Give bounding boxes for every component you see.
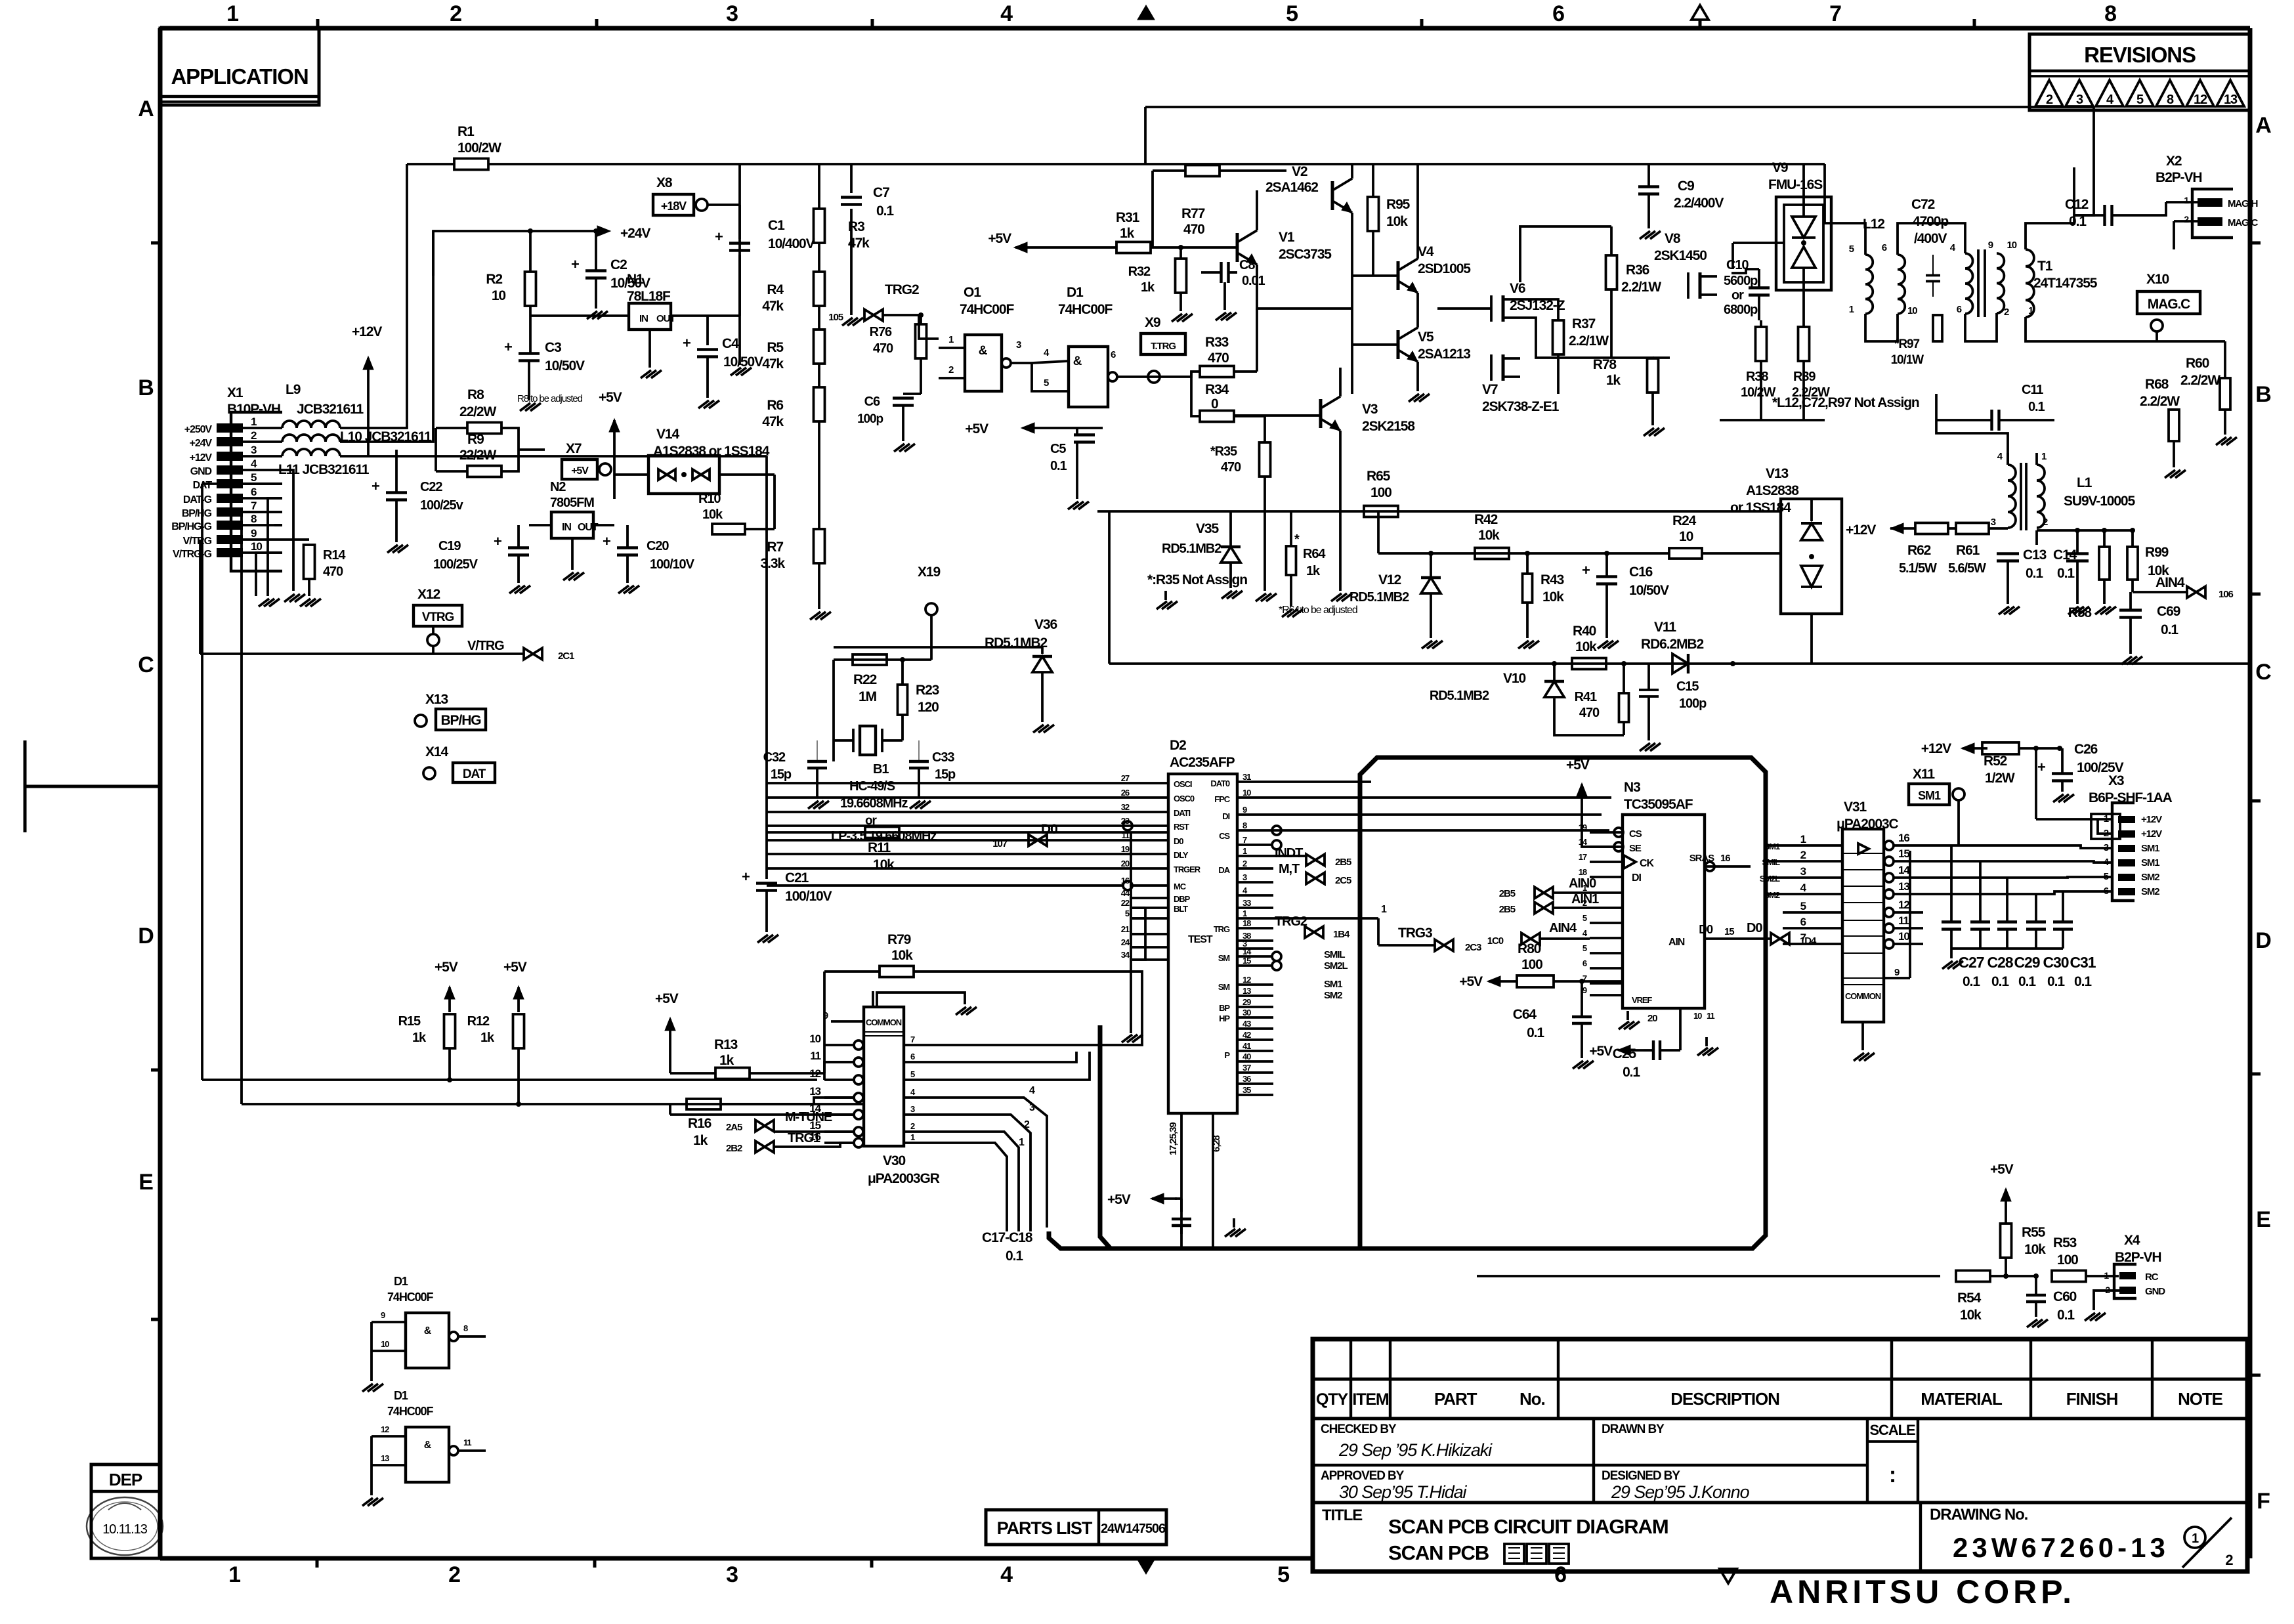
svg-text:OSCI: OSCI	[1174, 779, 1192, 789]
svg-text:+12V: +12V	[2141, 814, 2162, 825]
svg-text:41: 41	[1243, 1041, 1251, 1051]
svg-text:AIN4: AIN4	[2156, 575, 2185, 590]
svg-text:DI: DI	[1222, 811, 1229, 821]
svg-text:A1S2838: A1S2838	[1746, 483, 1799, 498]
svg-text:*R64:to be adjusted: *R64:to be adjusted	[1279, 605, 1357, 616]
svg-text:47k: 47k	[762, 414, 784, 429]
svg-text:6: 6	[1554, 1562, 1566, 1587]
svg-text:R40: R40	[1573, 624, 1596, 639]
svg-text:V11: V11	[1654, 620, 1676, 635]
svg-text:4: 4	[1029, 1085, 1035, 1096]
svg-text:18: 18	[1579, 867, 1587, 877]
svg-text:7: 7	[251, 500, 257, 512]
svg-text:N2: N2	[550, 480, 566, 494]
svg-text:8: 8	[1243, 821, 1247, 830]
svg-text:16: 16	[1898, 832, 1909, 844]
svg-text:OSC0: OSC0	[1174, 794, 1195, 803]
svg-text:10: 10	[492, 288, 506, 303]
svg-text:V/TRG: V/TRG	[183, 536, 212, 547]
svg-text:47k: 47k	[848, 236, 870, 251]
svg-text:3: 3	[1016, 339, 1021, 351]
svg-text:V/TRG: V/TRG	[467, 639, 504, 653]
svg-text:+24V: +24V	[620, 226, 650, 241]
svg-text:12: 12	[2194, 93, 2207, 107]
svg-text:6: 6	[251, 486, 257, 498]
svg-text:2: 2	[251, 429, 257, 442]
svg-text:DESCRIPTION: DESCRIPTION	[1670, 1389, 1779, 1409]
svg-text:+250V: +250V	[184, 424, 213, 435]
svg-text:120: 120	[918, 700, 939, 715]
svg-text:4: 4	[1000, 1562, 1013, 1587]
svg-text:&: &	[1073, 354, 1082, 368]
svg-text:13: 13	[1898, 880, 1909, 893]
svg-text:2.2/2W: 2.2/2W	[2180, 373, 2220, 388]
svg-text:10/1W: 10/1W	[1891, 353, 1924, 367]
svg-text:100p: 100p	[1679, 696, 1707, 711]
svg-text:21: 21	[1121, 924, 1130, 934]
svg-text:&: &	[424, 1325, 432, 1336]
svg-text:10k: 10k	[873, 857, 895, 872]
svg-text:1/2W: 1/2W	[1985, 771, 2015, 786]
svg-text:2.2/400V: 2.2/400V	[1674, 196, 1724, 211]
svg-text:10k: 10k	[1575, 639, 1597, 654]
svg-text:V7: V7	[1482, 382, 1498, 397]
svg-text:C30: C30	[2043, 954, 2069, 971]
svg-text:36: 36	[1243, 1074, 1251, 1084]
svg-text:100/25v: 100/25v	[420, 498, 464, 513]
svg-text:*R35: *R35	[1210, 444, 1237, 459]
svg-text:C72: C72	[1911, 197, 1935, 212]
svg-text:2: 2	[2004, 307, 2009, 318]
svg-text:12: 12	[1898, 899, 1909, 911]
svg-text:1: 1	[948, 334, 954, 345]
svg-text:470: 470	[1208, 351, 1229, 366]
svg-text:1: 1	[228, 1562, 240, 1587]
svg-text:2.2/1W: 2.2/1W	[1569, 333, 1609, 349]
svg-text:E: E	[138, 1170, 153, 1195]
svg-text:R32: R32	[1128, 265, 1151, 279]
svg-text:V35: V35	[1196, 521, 1219, 536]
svg-text:15: 15	[1243, 956, 1251, 966]
svg-text:3.3k: 3.3k	[761, 556, 786, 571]
svg-text:1k: 1k	[693, 1133, 708, 1148]
svg-text:VREF: VREF	[1632, 995, 1652, 1005]
svg-text:V8: V8	[1665, 231, 1681, 246]
svg-text:0.1: 0.1	[2057, 1308, 2075, 1323]
svg-text:B: B	[2255, 382, 2271, 407]
svg-text:C3: C3	[545, 340, 561, 355]
svg-text:R53: R53	[2053, 1235, 2077, 1250]
svg-text:10k: 10k	[1960, 1308, 1982, 1323]
svg-text:X19: X19	[918, 565, 940, 580]
svg-text:R10: R10	[698, 492, 721, 506]
svg-text:C9: C9	[1678, 179, 1694, 194]
svg-text:2: 2	[1243, 859, 1247, 868]
svg-text:8: 8	[2104, 1, 2116, 26]
svg-text:10: 10	[1243, 788, 1251, 798]
svg-text:1k: 1k	[1606, 373, 1621, 388]
svg-text:R38: R38	[1746, 370, 1768, 384]
svg-text:22/2W: 22/2W	[459, 448, 496, 463]
svg-text:JCB321611: JCB321611	[297, 402, 364, 417]
svg-text:23W67260-13: 23W67260-13	[1953, 1532, 2169, 1563]
svg-text:+5V: +5V	[1990, 1162, 2014, 1177]
svg-text:2C5: 2C5	[1335, 875, 1351, 886]
svg-text:BP/HG: BP/HG	[182, 508, 212, 519]
svg-text:10k: 10k	[891, 948, 913, 963]
svg-text:6: 6	[1882, 242, 1887, 253]
svg-text:2C1: 2C1	[558, 651, 574, 662]
svg-text:2SK2158: 2SK2158	[1362, 419, 1415, 434]
svg-text:B1: B1	[873, 762, 889, 777]
svg-text:2: 2	[2046, 93, 2053, 107]
svg-text:R3: R3	[848, 219, 864, 234]
svg-text:1: 1	[1243, 908, 1247, 918]
svg-text:DRAWING No.: DRAWING No.	[1930, 1506, 2028, 1524]
svg-text:R41: R41	[1575, 690, 1597, 704]
svg-text:1k: 1k	[1120, 226, 1135, 241]
svg-text:HP: HP	[1219, 1014, 1230, 1023]
svg-text:10/50V: 10/50V	[723, 354, 763, 370]
svg-text:+: +	[683, 335, 690, 351]
svg-text:R68: R68	[2145, 377, 2169, 392]
svg-text:11: 11	[1707, 1011, 1714, 1021]
svg-text:0.1: 0.1	[2026, 566, 2043, 581]
svg-text:10: 10	[251, 540, 262, 553]
svg-text:2A5: 2A5	[726, 1122, 742, 1133]
svg-text:2B5: 2B5	[1335, 857, 1351, 868]
svg-text:10: 10	[381, 1339, 389, 1349]
svg-text:100: 100	[1521, 957, 1542, 972]
svg-text:0.1: 0.1	[2028, 400, 2045, 414]
svg-text:+18V: +18V	[661, 200, 687, 213]
svg-text:TEST: TEST	[1188, 934, 1213, 945]
svg-text:100/10V: 100/10V	[650, 557, 695, 572]
svg-text:10: 10	[809, 1033, 820, 1045]
svg-text:&: &	[424, 1440, 432, 1451]
svg-text:COMMON: COMMON	[866, 1017, 902, 1027]
svg-text:2: 2	[450, 1, 461, 26]
svg-text:470: 470	[1221, 460, 1241, 475]
svg-text:5: 5	[1849, 244, 1854, 255]
svg-text:6: 6	[1957, 304, 1962, 315]
svg-text:MAG-C: MAG-C	[2228, 217, 2259, 228]
svg-text:2: 2	[1800, 849, 1806, 861]
svg-text:3: 3	[2076, 93, 2083, 107]
svg-text:1k: 1k	[1141, 280, 1155, 295]
svg-text:10k: 10k	[1386, 214, 1408, 229]
svg-text:SE: SE	[1629, 843, 1642, 854]
svg-text:10: 10	[1898, 930, 1909, 943]
svg-text:100p: 100p	[857, 412, 883, 426]
svg-text:No.: No.	[1519, 1389, 1545, 1409]
svg-text:T.TRG: T.TRG	[1151, 341, 1176, 352]
svg-text:TRG3: TRG3	[1398, 926, 1432, 941]
svg-text:D0: D0	[1041, 822, 1057, 837]
svg-text:C60: C60	[2053, 1289, 2077, 1304]
svg-text:*:R35 Not Assign: *:R35 Not Assign	[1147, 572, 1247, 588]
svg-text:SM1: SM1	[2141, 857, 2159, 868]
svg-text:6: 6	[1800, 916, 1806, 928]
svg-text::: :	[1889, 1463, 1896, 1487]
svg-text:2: 2	[910, 1121, 915, 1131]
svg-text:13: 13	[2224, 93, 2238, 107]
svg-text:SCAN PCB CIRCUIT DIAGRAM: SCAN PCB CIRCUIT DIAGRAM	[1388, 1515, 1668, 1538]
svg-text:8: 8	[2167, 93, 2174, 107]
svg-text:RC: RC	[2145, 1271, 2159, 1283]
svg-text:5: 5	[1286, 1, 1298, 26]
svg-text:10/400V: 10/400V	[768, 236, 815, 251]
svg-text:&: &	[979, 344, 988, 358]
svg-text:BP/HG: BP/HG	[440, 713, 481, 728]
svg-text:14: 14	[1898, 864, 1910, 876]
svg-text:74HC00F: 74HC00F	[1058, 302, 1113, 317]
svg-text:V5: V5	[1418, 330, 1434, 345]
svg-text:SM2: SM2	[2141, 886, 2159, 897]
svg-text:C14: C14	[2053, 547, 2077, 563]
svg-text:11: 11	[463, 1438, 471, 1447]
svg-text:SM2: SM2	[1324, 990, 1342, 1001]
svg-text:10k: 10k	[702, 507, 723, 522]
svg-text:+5V: +5V	[1566, 758, 1590, 773]
svg-text:SM2: SM2	[2141, 872, 2159, 883]
svg-text:+5V: +5V	[965, 421, 988, 437]
svg-text:74HC00F: 74HC00F	[387, 1405, 433, 1418]
svg-text:3: 3	[910, 1104, 915, 1114]
svg-text:0: 0	[1211, 396, 1218, 412]
svg-text:E: E	[2256, 1207, 2270, 1232]
svg-text:R77: R77	[1181, 206, 1205, 221]
svg-text:RD6.2MB2: RD6.2MB2	[1641, 637, 1703, 652]
svg-text:C: C	[138, 652, 154, 677]
svg-text:47k: 47k	[762, 299, 784, 314]
svg-text:15p: 15p	[771, 767, 792, 782]
svg-text:D: D	[138, 924, 154, 949]
svg-text:DEP: DEP	[109, 1470, 142, 1489]
svg-text:ANRITSU CORP.: ANRITSU CORP.	[1770, 1573, 2075, 1610]
svg-text:T1: T1	[2037, 259, 2053, 274]
svg-text:R55: R55	[2022, 1225, 2046, 1240]
svg-text:+: +	[742, 868, 750, 885]
svg-text:42: 42	[1243, 1030, 1251, 1040]
svg-text:F: F	[2257, 1489, 2270, 1514]
svg-text:1: 1	[226, 1, 238, 26]
svg-text:+24V: +24V	[190, 438, 213, 449]
svg-text:1: 1	[2041, 451, 2047, 462]
svg-text:B2P-VH: B2P-VH	[2115, 1250, 2161, 1265]
svg-text:9: 9	[1988, 240, 1993, 251]
svg-text:6: 6	[1552, 1, 1564, 26]
svg-text:R31: R31	[1116, 210, 1140, 225]
svg-text:SM: SM	[1218, 953, 1230, 963]
svg-text:AIN: AIN	[1668, 937, 1685, 948]
svg-text:0.1: 0.1	[1963, 974, 1980, 989]
svg-text:+12V: +12V	[2141, 828, 2162, 840]
svg-text:4: 4	[1000, 1, 1013, 26]
svg-text:D0: D0	[1174, 836, 1183, 846]
svg-text:M,T: M,T	[1279, 862, 1300, 876]
svg-text:40: 40	[1243, 1052, 1251, 1061]
svg-text:R1: R1	[457, 124, 475, 139]
svg-text:20: 20	[1647, 1013, 1657, 1024]
svg-text:43: 43	[1243, 1019, 1251, 1029]
svg-text:X2: X2	[2166, 154, 2182, 169]
svg-text:3: 3	[251, 444, 257, 456]
svg-text:+5V: +5V	[655, 991, 679, 1006]
svg-text:C: C	[2255, 660, 2271, 685]
svg-text:X3: X3	[2108, 773, 2124, 788]
svg-text:R33: R33	[1205, 335, 1229, 350]
svg-text:1: 1	[1381, 904, 1387, 915]
svg-text:DAT: DAT	[463, 767, 486, 781]
svg-text:0.1: 0.1	[1991, 974, 2009, 989]
svg-text:INDT: INDT	[1275, 846, 1303, 861]
svg-text:C2: C2	[610, 257, 627, 272]
svg-text:+5V: +5V	[571, 465, 589, 477]
svg-text:6: 6	[910, 1052, 915, 1061]
svg-text:M-TUNE: M-TUNE	[785, 1110, 832, 1124]
svg-text:2C3: 2C3	[1465, 942, 1481, 953]
svg-text:TC35095AF: TC35095AF	[1624, 797, 1693, 812]
svg-text:V3: V3	[1362, 402, 1378, 417]
svg-text:26: 26	[1121, 788, 1130, 798]
svg-text:L9: L9	[286, 382, 301, 397]
svg-text:11: 11	[1121, 830, 1129, 840]
svg-text:+: +	[494, 533, 501, 549]
svg-text:R60: R60	[2186, 356, 2209, 371]
svg-text:18: 18	[1243, 918, 1251, 928]
svg-text:C5: C5	[1050, 442, 1066, 456]
svg-text:100/10V: 100/10V	[785, 889, 832, 904]
svg-text:MC: MC	[1174, 882, 1187, 891]
svg-text:13: 13	[381, 1453, 389, 1463]
svg-text:+5V: +5V	[1589, 1044, 1613, 1059]
svg-text:MATERIAL: MATERIAL	[1921, 1389, 2003, 1409]
svg-text:R79: R79	[887, 932, 911, 947]
svg-text:0.1: 0.1	[1527, 1025, 1544, 1040]
svg-text:0.1: 0.1	[2074, 974, 2092, 989]
svg-text:CS: CS	[1629, 828, 1642, 840]
svg-text:13: 13	[1243, 986, 1251, 996]
svg-text:47k: 47k	[762, 356, 784, 372]
svg-text:7805FM: 7805FM	[550, 496, 594, 510]
svg-text:DESIGNED BY: DESIGNED BY	[1602, 1469, 1680, 1483]
svg-text:100/2W: 100/2W	[457, 140, 501, 156]
svg-text:R80: R80	[1518, 941, 1541, 956]
svg-text:V31: V31	[1844, 800, 1867, 815]
svg-text:0.1: 0.1	[2018, 974, 2036, 989]
svg-text:24T147355: 24T147355	[2033, 276, 2098, 291]
svg-text:C33: C33	[932, 750, 954, 765]
svg-text:O1: O1	[964, 285, 981, 300]
svg-text:+: +	[603, 533, 610, 549]
svg-text:2SD1005: 2SD1005	[1418, 261, 1471, 276]
svg-text:10/50V: 10/50V	[1629, 583, 1669, 598]
svg-text:5: 5	[1582, 943, 1587, 953]
svg-text:SM1: SM1	[1918, 789, 1941, 802]
svg-text:74HC00F: 74HC00F	[387, 1291, 433, 1304]
svg-text:470: 470	[1579, 706, 1600, 720]
svg-text:ITEM: ITEM	[1352, 1390, 1389, 1409]
svg-text:R15: R15	[398, 1014, 421, 1029]
svg-text:APPLICATION: APPLICATION	[171, 64, 308, 89]
svg-text:N3: N3	[1624, 780, 1640, 795]
svg-text:FPC: FPC	[1214, 794, 1230, 804]
svg-text:B: B	[138, 375, 154, 400]
svg-text:V36: V36	[1034, 617, 1057, 632]
svg-text:X4: X4	[2124, 1233, 2140, 1248]
svg-text:R76: R76	[870, 325, 892, 339]
svg-text:C15: C15	[1676, 679, 1699, 694]
svg-text:2.2/2W: 2.2/2W	[2140, 394, 2180, 409]
svg-text:10.11.13: 10.11.13	[102, 1522, 148, 1537]
svg-text:0.1: 0.1	[1006, 1249, 1023, 1264]
svg-text:R64: R64	[1303, 547, 1326, 561]
svg-text:V6: V6	[1510, 281, 1525, 296]
svg-text:5: 5	[1800, 900, 1806, 912]
svg-text:+12V: +12V	[352, 324, 382, 339]
svg-text:R24: R24	[1672, 513, 1697, 528]
svg-text:V30: V30	[883, 1153, 905, 1168]
svg-text:X10: X10	[2146, 272, 2169, 287]
svg-text:34: 34	[1121, 950, 1130, 960]
svg-text:CHECKED BY: CHECKED BY	[1321, 1422, 1397, 1436]
svg-text:0.1: 0.1	[2057, 566, 2075, 581]
svg-text:V2: V2	[1292, 164, 1307, 179]
svg-text:+12V: +12V	[1846, 523, 1876, 538]
svg-text:D: D	[2255, 928, 2271, 953]
svg-text:5: 5	[1277, 1562, 1289, 1587]
svg-text:R65: R65	[1367, 469, 1391, 484]
svg-text:DRAWN BY: DRAWN BY	[1602, 1422, 1665, 1436]
svg-text:TITLE: TITLE	[1322, 1506, 1363, 1524]
svg-text:5: 5	[1044, 377, 1049, 389]
svg-text:TRGER: TRGER	[1174, 865, 1201, 874]
svg-text:R42: R42	[1474, 512, 1498, 527]
svg-text:3: 3	[726, 1, 738, 26]
svg-text:R16: R16	[688, 1116, 712, 1131]
svg-text:NOTE: NOTE	[2178, 1389, 2223, 1409]
svg-text:+5V: +5V	[599, 390, 622, 405]
svg-text:X7: X7	[566, 441, 582, 456]
svg-text:V12: V12	[1378, 572, 1401, 588]
svg-text:R22: R22	[853, 672, 877, 687]
svg-text:7: 7	[1243, 835, 1247, 845]
svg-text:SRAS: SRAS	[1689, 853, 1714, 864]
svg-text:R54: R54	[1957, 1291, 1982, 1306]
svg-text:V9: V9	[1772, 160, 1788, 175]
svg-text:10/50V: 10/50V	[545, 358, 585, 374]
svg-text:V4: V4	[1418, 244, 1434, 259]
svg-text:RD5.1MB2: RD5.1MB2	[1349, 590, 1409, 605]
svg-text:C1: C1	[768, 218, 785, 233]
svg-text:+: +	[372, 478, 379, 494]
svg-text:0.1: 0.1	[1623, 1065, 1640, 1080]
svg-text:X14: X14	[425, 744, 448, 759]
svg-text:PART: PART	[1434, 1389, 1477, 1409]
svg-text:11: 11	[1898, 914, 1909, 927]
svg-text:0.1: 0.1	[1050, 459, 1067, 473]
svg-text:16: 16	[1720, 853, 1730, 864]
svg-text:1: 1	[251, 416, 257, 428]
svg-text:R61: R61	[1956, 543, 1980, 558]
svg-text:31: 31	[1243, 772, 1251, 782]
svg-text:X8: X8	[656, 175, 673, 190]
svg-text:17,25,39: 17,25,39	[1168, 1122, 1179, 1155]
svg-text:19: 19	[1121, 844, 1130, 854]
svg-text:C12: C12	[2065, 197, 2089, 212]
svg-text:R99: R99	[2145, 545, 2169, 560]
